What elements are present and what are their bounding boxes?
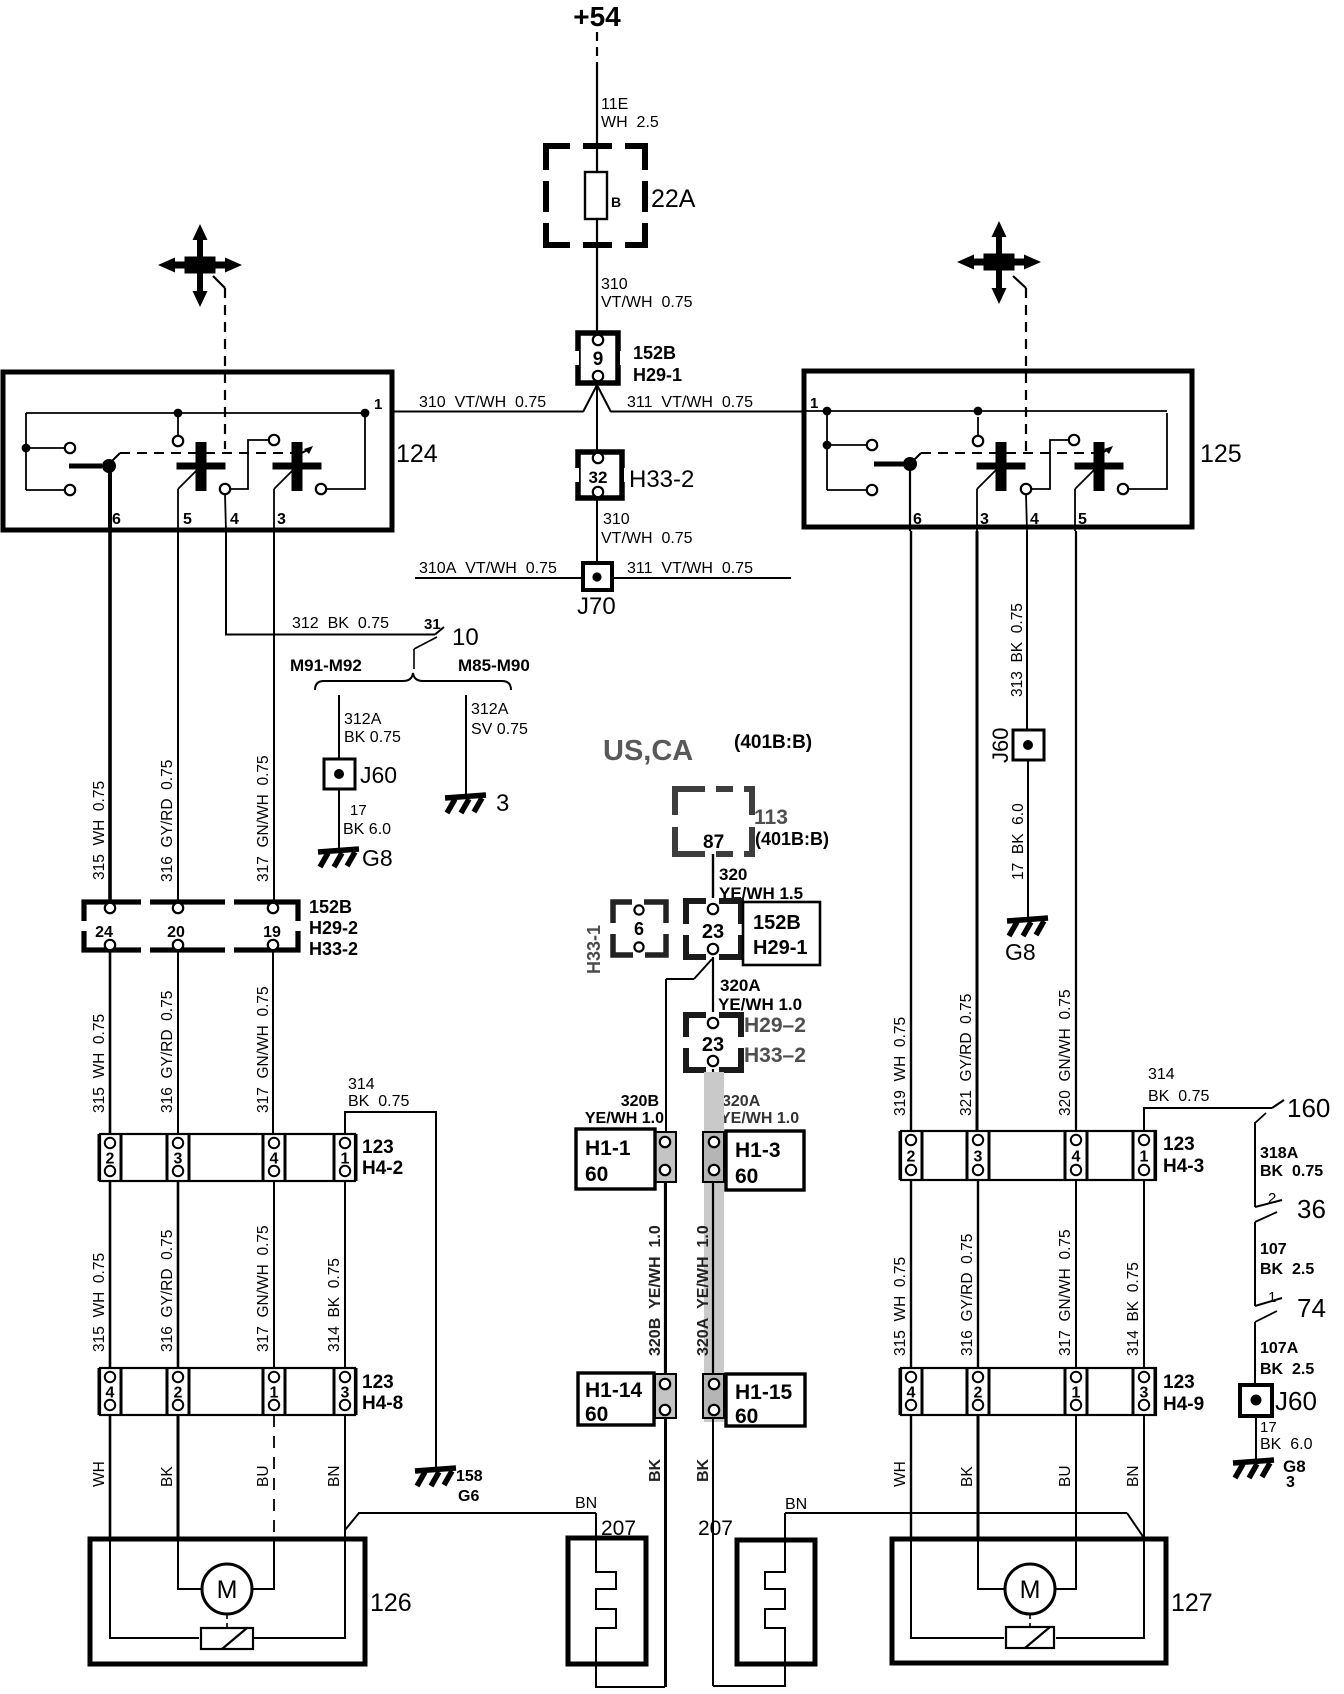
svg-text:312 BK 0.75: 312 BK 0.75 xyxy=(292,615,389,632)
svg-text:SV 0.75: SV 0.75 xyxy=(471,721,528,738)
svg-text:J60: J60 xyxy=(1275,1386,1317,1416)
svg-text:H29-1: H29-1 xyxy=(633,365,682,385)
svg-text:J70: J70 xyxy=(577,593,616,620)
svg-text:314: 314 xyxy=(348,1076,375,1093)
svg-text:315 WH 0.75: 315 WH 0.75 xyxy=(91,1014,108,1113)
svg-text:318A: 318A xyxy=(1260,1145,1299,1162)
svg-text:3: 3 xyxy=(980,511,989,528)
svg-text:319 WH 0.75: 319 WH 0.75 xyxy=(892,1017,909,1116)
svg-text:BU: BU xyxy=(1057,1465,1074,1487)
svg-text:BK 2.5: BK 2.5 xyxy=(1260,1361,1314,1378)
svg-text:1: 1 xyxy=(810,395,818,412)
svg-text:(401B:B): (401B:B) xyxy=(755,829,829,849)
svg-text:123: 123 xyxy=(1163,1134,1195,1155)
svg-text:BK 2.5: BK 2.5 xyxy=(1260,1261,1314,1278)
svg-text:H29-2: H29-2 xyxy=(309,918,358,938)
svg-text:127: 127 xyxy=(1171,1589,1213,1617)
svg-text:113: 113 xyxy=(754,806,788,829)
svg-text:60: 60 xyxy=(735,1405,758,1428)
svg-text:107A: 107A xyxy=(1260,1340,1299,1357)
svg-text:BK 6.0: BK 6.0 xyxy=(1260,1436,1313,1453)
svg-text:WH: WH xyxy=(892,1461,909,1487)
svg-text:4: 4 xyxy=(1030,511,1039,528)
svg-text:BN: BN xyxy=(575,1495,597,1512)
svg-text:10: 10 xyxy=(452,624,479,651)
svg-text:23: 23 xyxy=(702,921,724,943)
svg-text:J60: J60 xyxy=(988,728,1013,763)
svg-text:3: 3 xyxy=(496,790,509,817)
svg-text:4: 4 xyxy=(1072,1149,1081,1166)
svg-text:WH: WH xyxy=(91,1461,108,1487)
svg-text:H4-3: H4-3 xyxy=(1163,1156,1204,1177)
svg-text:(401B:B): (401B:B) xyxy=(734,732,812,753)
svg-text:152B: 152B xyxy=(753,912,801,934)
svg-text:M91-M92: M91-M92 xyxy=(290,656,362,675)
svg-text:+54: +54 xyxy=(573,1,621,32)
svg-text:311 VT/WH 0.75: 311 VT/WH 0.75 xyxy=(627,560,753,577)
svg-text:H4-9: H4-9 xyxy=(1163,1394,1204,1415)
svg-text:3: 3 xyxy=(174,1151,183,1168)
svg-text:320A: 320A xyxy=(720,976,761,995)
svg-text:G6: G6 xyxy=(458,1488,479,1505)
svg-text:87: 87 xyxy=(703,832,724,853)
svg-text:207: 207 xyxy=(601,1517,636,1540)
svg-text:310 VT/WH 0.75: 310 VT/WH 0.75 xyxy=(419,394,546,411)
svg-text:310: 310 xyxy=(603,511,630,528)
svg-text:BK: BK xyxy=(695,1458,712,1482)
svg-text:2: 2 xyxy=(907,1149,916,1166)
svg-text:17: 17 xyxy=(1260,1419,1277,1436)
svg-text:124: 124 xyxy=(396,440,438,468)
svg-text:BK 0.75: BK 0.75 xyxy=(344,729,401,746)
svg-text:BK 0.75: BK 0.75 xyxy=(1148,1088,1209,1105)
svg-text:H33-2: H33-2 xyxy=(309,939,358,959)
svg-text:H33-1: H33-1 xyxy=(584,925,604,974)
svg-text:317 GN/WH 0.75: 317 GN/WH 0.75 xyxy=(255,1225,272,1352)
svg-text:VT/WH 0.75: VT/WH 0.75 xyxy=(601,294,693,311)
svg-text:6: 6 xyxy=(112,511,121,528)
svg-text:314 BK 0.75: 314 BK 0.75 xyxy=(1125,1262,1142,1356)
svg-text:YE/WH 1.0: YE/WH 1.0 xyxy=(585,1110,664,1127)
svg-text:1: 1 xyxy=(341,1151,350,1168)
svg-text:US,CA: US,CA xyxy=(603,735,693,767)
svg-text:H33-2: H33-2 xyxy=(629,466,694,493)
svg-text:1: 1 xyxy=(374,396,382,413)
svg-text:310: 310 xyxy=(601,276,628,293)
svg-text:5: 5 xyxy=(1078,511,1087,528)
svg-text:74: 74 xyxy=(1297,1293,1326,1323)
svg-text:BK: BK xyxy=(647,1458,664,1482)
svg-text:3: 3 xyxy=(341,1385,350,1402)
svg-text:310A VT/WH 0.75: 310A VT/WH 0.75 xyxy=(419,560,557,577)
svg-text:M: M xyxy=(217,1576,238,1604)
svg-text:3: 3 xyxy=(1140,1385,1149,1402)
svg-text:312A: 312A xyxy=(344,711,382,728)
svg-text:1: 1 xyxy=(1268,1289,1276,1306)
svg-text:123: 123 xyxy=(362,1372,394,1393)
svg-text:BK 6.0: BK 6.0 xyxy=(343,821,391,838)
svg-text:M85-M90: M85-M90 xyxy=(458,656,530,675)
svg-text:160: 160 xyxy=(1287,1093,1330,1123)
svg-text:YE/WH 1.0: YE/WH 1.0 xyxy=(720,1110,799,1127)
svg-text:320A YE/WH 1.0: 320A YE/WH 1.0 xyxy=(695,1225,712,1356)
svg-text:320B: 320B xyxy=(621,1093,659,1110)
svg-text:J60: J60 xyxy=(360,762,397,788)
svg-text:316 GY/RD 0.75: 316 GY/RD 0.75 xyxy=(959,1234,976,1356)
svg-text:H1-15: H1-15 xyxy=(735,1381,793,1404)
svg-text:BK 0.75: BK 0.75 xyxy=(348,1093,409,1110)
svg-text:H29–2: H29–2 xyxy=(744,1014,806,1037)
svg-text:1: 1 xyxy=(1140,1149,1149,1166)
svg-text:B: B xyxy=(611,194,621,210)
svg-text:2: 2 xyxy=(1268,1190,1276,1207)
svg-text:107: 107 xyxy=(1260,1241,1287,1258)
svg-text:315 WH 0.75: 315 WH 0.75 xyxy=(91,1253,108,1352)
svg-text:158: 158 xyxy=(456,1468,483,1485)
svg-text:6: 6 xyxy=(634,919,644,939)
svg-text:207: 207 xyxy=(698,1517,733,1540)
svg-text:321 GY/RD 0.75: 321 GY/RD 0.75 xyxy=(958,994,975,1116)
svg-text:320: 320 xyxy=(719,865,747,884)
svg-text:BN: BN xyxy=(326,1465,343,1487)
svg-text:M: M xyxy=(1020,1576,1041,1604)
svg-text:126: 126 xyxy=(370,1589,412,1617)
svg-text:317 GN/WH 0.75: 317 GN/WH 0.75 xyxy=(1057,1229,1074,1356)
svg-text:152B: 152B xyxy=(309,897,352,917)
svg-text:314: 314 xyxy=(1148,1066,1175,1083)
svg-text:60: 60 xyxy=(585,1403,608,1426)
svg-text:4: 4 xyxy=(230,511,239,528)
svg-text:H29-1: H29-1 xyxy=(753,937,807,959)
svg-text:3: 3 xyxy=(277,511,286,528)
svg-text:BU: BU xyxy=(255,1465,272,1487)
svg-text:11E: 11E xyxy=(601,96,628,113)
svg-text:320 GN/WH 0.75: 320 GN/WH 0.75 xyxy=(1057,989,1074,1116)
svg-text:24: 24 xyxy=(95,924,113,941)
svg-text:YE/WH 1.0: YE/WH 1.0 xyxy=(718,995,802,1014)
svg-text:1: 1 xyxy=(1072,1385,1081,1402)
svg-text:1: 1 xyxy=(270,1385,279,1402)
svg-text:60: 60 xyxy=(735,1165,758,1188)
svg-text:4: 4 xyxy=(270,1151,279,1168)
svg-text:60: 60 xyxy=(585,1163,608,1186)
svg-text:315 WH 0.75: 315 WH 0.75 xyxy=(892,1257,909,1356)
svg-text:2: 2 xyxy=(174,1385,183,1402)
svg-text:H1-3: H1-3 xyxy=(735,1139,781,1162)
svg-text:17 BK 6.0: 17 BK 6.0 xyxy=(1010,803,1027,880)
svg-text:316 GY/RD 0.75: 316 GY/RD 0.75 xyxy=(159,991,176,1113)
svg-text:31: 31 xyxy=(424,616,441,633)
svg-text:WH 2.5: WH 2.5 xyxy=(601,114,659,131)
svg-text:20: 20 xyxy=(167,924,185,941)
svg-text:313 BK 0.75: 313 BK 0.75 xyxy=(1009,603,1026,697)
svg-text:123: 123 xyxy=(362,1137,394,1158)
svg-text:317 GN/WH 0.75: 317 GN/WH 0.75 xyxy=(255,755,272,882)
svg-text:315 WH 0.75: 315 WH 0.75 xyxy=(91,781,108,880)
svg-text:BK: BK xyxy=(159,1466,176,1487)
svg-text:BN: BN xyxy=(1125,1465,1142,1487)
svg-text:19: 19 xyxy=(263,924,281,941)
svg-text:BN: BN xyxy=(785,1496,807,1513)
svg-text:125: 125 xyxy=(1200,440,1242,468)
svg-text:VT/WH 0.75: VT/WH 0.75 xyxy=(601,530,693,547)
svg-text:G8: G8 xyxy=(1005,939,1036,965)
svg-text:320A: 320A xyxy=(722,1093,761,1110)
svg-text:152B: 152B xyxy=(633,343,676,363)
svg-text:2: 2 xyxy=(974,1385,983,1402)
svg-text:9: 9 xyxy=(593,349,604,370)
svg-text:123: 123 xyxy=(1163,1372,1195,1393)
svg-text:316 GY/RD 0.75: 316 GY/RD 0.75 xyxy=(159,1230,176,1352)
svg-text:317 GN/WH 0.75: 317 GN/WH 0.75 xyxy=(255,986,272,1113)
svg-text:H1-14: H1-14 xyxy=(585,1379,643,1402)
svg-text:32: 32 xyxy=(589,468,608,487)
svg-text:6: 6 xyxy=(913,511,922,528)
svg-text:312A: 312A xyxy=(471,701,509,718)
svg-text:23: 23 xyxy=(702,1034,724,1056)
svg-text:311 VT/WH 0.75: 311 VT/WH 0.75 xyxy=(627,394,753,411)
svg-text:4: 4 xyxy=(106,1385,115,1402)
svg-text:H33–2: H33–2 xyxy=(744,1044,806,1067)
svg-text:5: 5 xyxy=(183,511,192,528)
svg-text:H4-2: H4-2 xyxy=(362,1158,403,1179)
svg-text:H4-8: H4-8 xyxy=(362,1393,403,1414)
svg-text:3: 3 xyxy=(974,1149,983,1166)
svg-text:G8: G8 xyxy=(362,845,393,871)
svg-text:H1-1: H1-1 xyxy=(585,1137,631,1160)
svg-text:BK: BK xyxy=(959,1466,976,1487)
svg-text:3: 3 xyxy=(1286,1474,1295,1491)
svg-text:316 GY/RD 0.75: 316 GY/RD 0.75 xyxy=(159,760,176,882)
svg-text:22A: 22A xyxy=(651,185,696,213)
svg-text:320B YE/WH 1.0: 320B YE/WH 1.0 xyxy=(647,1225,664,1356)
svg-text:4: 4 xyxy=(907,1385,916,1402)
svg-text:2: 2 xyxy=(106,1151,115,1168)
svg-text:17: 17 xyxy=(350,802,367,819)
svg-text:314 BK 0.75: 314 BK 0.75 xyxy=(326,1258,343,1352)
svg-text:36: 36 xyxy=(1297,1194,1326,1224)
svg-text:BK 0.75: BK 0.75 xyxy=(1260,1163,1323,1180)
